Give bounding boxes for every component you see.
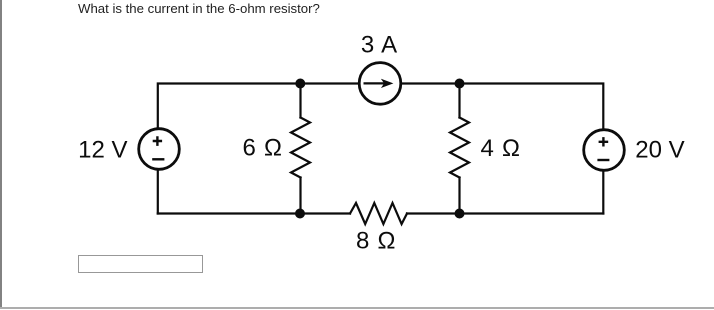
wire top-right: from current source through node B to 20V source	[402, 84, 604, 130]
wire 4-ohm top lead	[458, 84, 460, 118]
voltage source V1 12V circle	[139, 129, 180, 170]
resistor R3 8-ohm zigzag	[350, 203, 407, 224]
I1 arrow	[364, 82, 387, 84]
answer input box	[78, 255, 203, 274]
svg-text:4 Ω: 4 Ω	[481, 135, 520, 162]
node A junction dot (top of 6-ohm)	[295, 79, 305, 89]
V1 minus sign	[152, 158, 164, 160]
node B junction dot (top of 4-ohm)	[455, 79, 465, 89]
wire 6-ohm bottom lead	[299, 178, 301, 214]
node C junction dot (bottom of 6-ohm)	[295, 209, 305, 219]
V2 minus sign	[597, 159, 609, 161]
svg-text:8 Ω: 8 Ω	[356, 227, 395, 254]
node D junction dot (bottom of 4-ohm)	[455, 209, 465, 219]
V1 plus sign	[153, 136, 162, 146]
wire 6-ohm top lead	[299, 84, 301, 118]
resistor R1 6-ohm zigzag	[291, 118, 310, 178]
wire bottom-right: 8-ohm resistor to bottom-right corner	[407, 212, 603, 214]
V2 plus sign	[599, 137, 609, 146]
svg-text:20 V: 20 V	[635, 137, 684, 164]
svg-text:3 A: 3 A	[361, 32, 397, 59]
wire bottom-left: bottom-left corner to 8-ohm resistor	[158, 212, 350, 214]
wire 4-ohm bottom lead	[458, 178, 460, 214]
resistor R2 4-ohm zigzag	[450, 118, 469, 178]
wire left-bottom: from 12V source down to bottom-left corner	[157, 171, 159, 214]
current source I1 3A circle	[359, 63, 401, 105]
svg-text:12 V: 12 V	[78, 137, 127, 164]
wire top-left: from 12V source up and right to current source	[158, 84, 359, 129]
voltage source V2 20V circle	[584, 130, 625, 171]
svg-text:6 Ω: 6 Ω	[243, 135, 282, 162]
wire right-bottom: 20V source down to bottom-right corner	[602, 172, 604, 214]
question text	[78, 1, 320, 17]
